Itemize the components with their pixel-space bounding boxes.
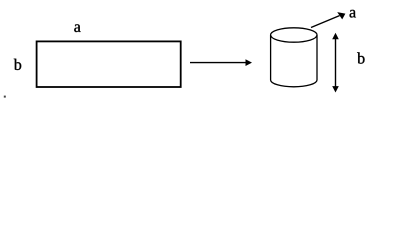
arrow (rectangle to cylinder) <box>190 59 252 66</box>
label b (left of rectangle) <box>14 59 21 70</box>
arrow (cylinder top to label a) <box>311 12 345 27</box>
label a (right of diagonal arrow) <box>350 10 356 18</box>
vertical double arrow (cylinder height b) <box>332 33 339 93</box>
rectangle (unrolled cylinder side) <box>37 41 181 87</box>
dot (bottom-left artifact) <box>4 96 6 98</box>
label b (right of vertical arrow) <box>357 52 364 63</box>
label a (top of rectangle) <box>74 24 80 32</box>
cylinder <box>271 28 317 87</box>
